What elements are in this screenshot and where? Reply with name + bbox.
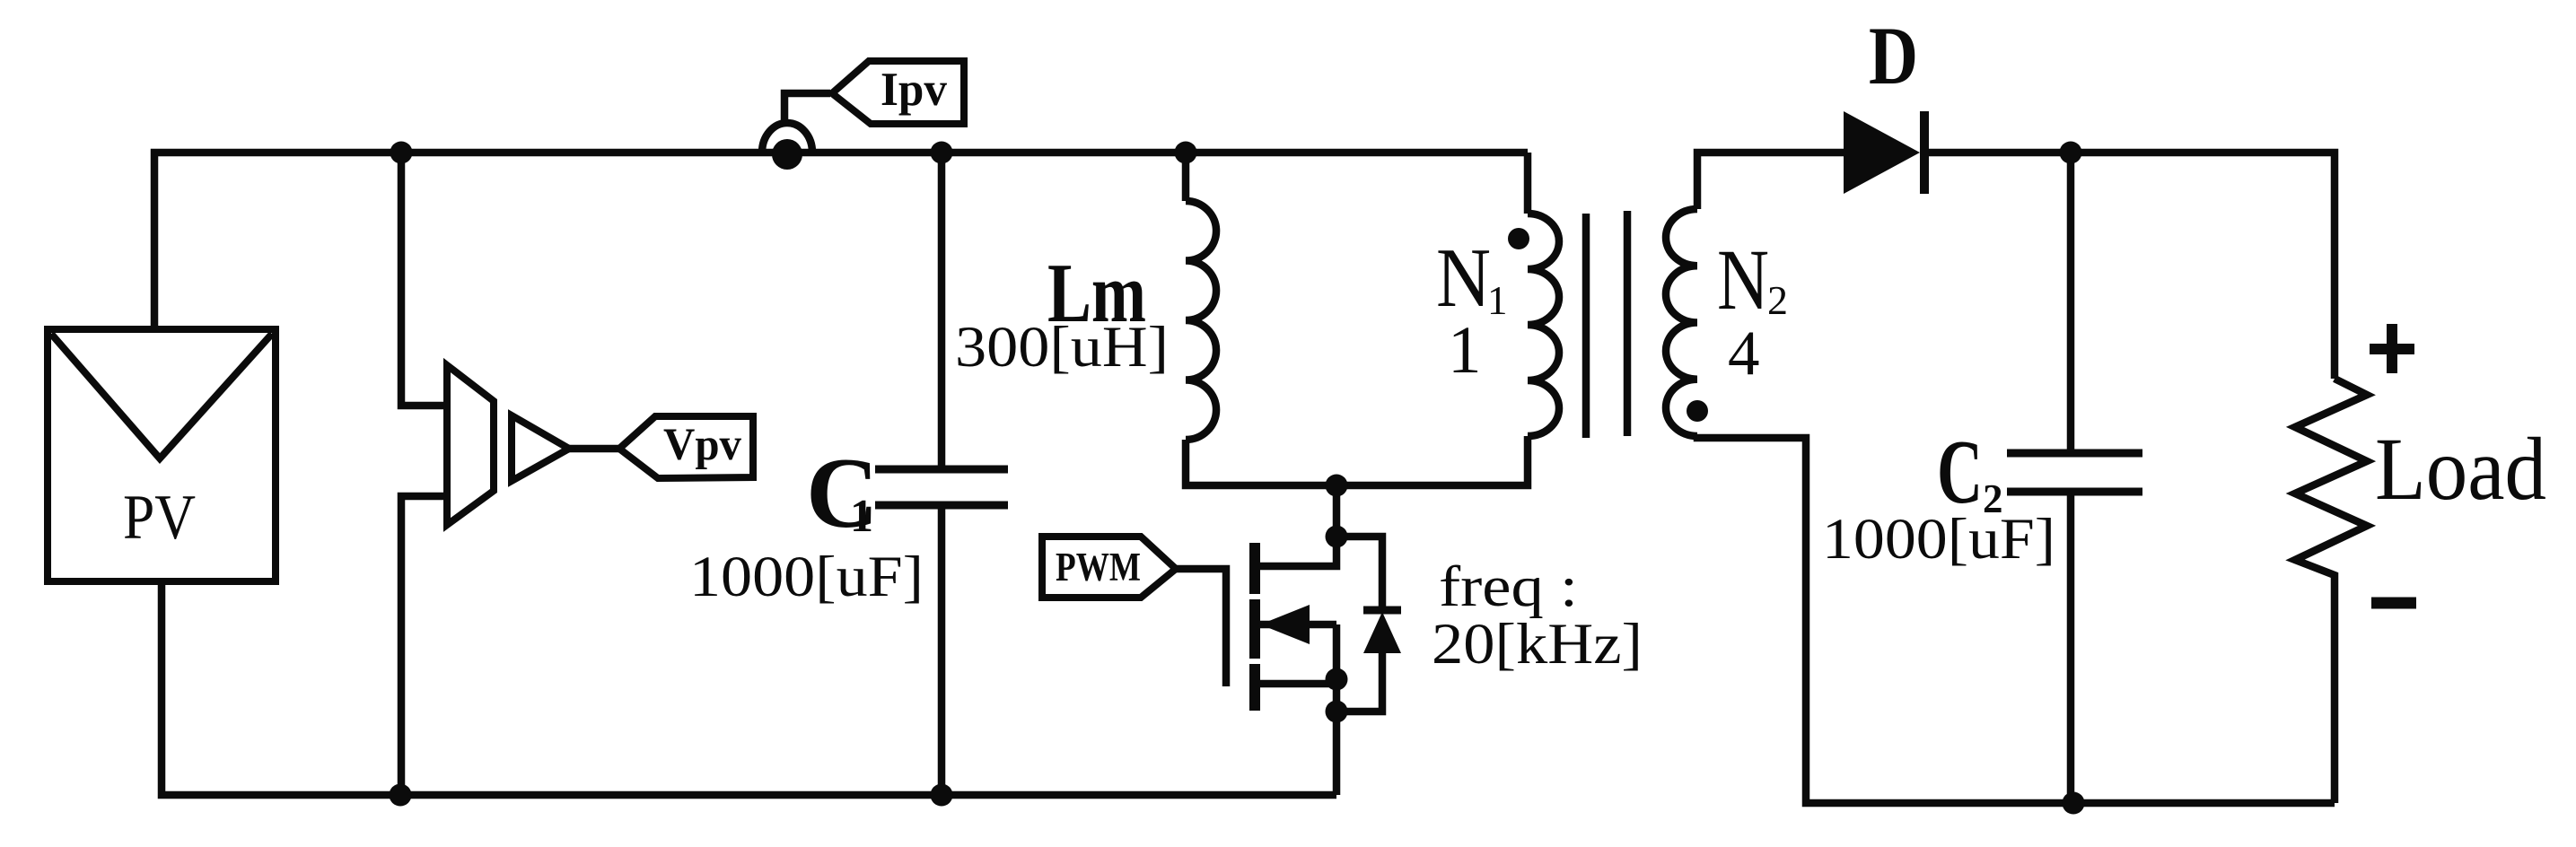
svg-text:1000[uF]: 1000[uF] [689,545,924,609]
transistor Q1 body arrow [1260,605,1310,644]
PV panel box [48,329,276,581]
PV panel triangle [51,334,272,458]
svg-text:freq :: freq : [1439,554,1578,619]
tag Ipv flag [832,61,964,124]
diode D triangle [1844,111,1920,194]
svg-text:Ipv: Ipv [881,64,947,116]
capacitor C1 top lead [938,153,946,469]
body diode triangle [1363,612,1401,653]
body diode cathode bar [1363,607,1401,615]
diode D cathode bar [1920,111,1929,194]
wire: N2 top lead to diode anode [1697,153,1844,209]
node: drain body-diode junction [1326,526,1348,548]
wire: sensor branch bottom [401,496,447,795]
node: sensor bottom tap [390,784,412,807]
svg-text:PV: PV [123,483,196,553]
wire: source vertical to bottom rail [1333,624,1341,795]
current sensor arc [762,123,812,153]
wire: Ipv tag hook [784,93,830,123]
svg-text:4: 4 [1728,319,1760,389]
capacitor C2 top lead [2067,153,2075,453]
capacitor C2 bottom lead [2067,492,2075,803]
wire: Vpv sensor output [569,445,619,453]
N1 phase dot [1508,228,1529,249]
node: body-diode bottom junction [1326,701,1348,723]
svg-text:PWM: PWM [1056,545,1141,589]
svg-text:Load: Load [2375,419,2546,519]
node: Lm top tap [1175,142,1197,164]
svg-text:1: 1 [1448,313,1482,388]
node: source junction [1326,668,1348,691]
node: sensor top tap [390,142,413,164]
transformer core bar 1 [1582,214,1590,438]
svg-text:300[uH]: 300[uH] [955,315,1169,380]
capacitor C2 plates [2007,453,2142,492]
svg-text:1: 1 [1487,278,1508,323]
capacitor C1 bottom lead [938,505,946,795]
voltage sensor U1 trapezoid [447,365,494,525]
wire: N1 top lead [1524,153,1532,214]
body diode bottom wire [1336,651,1382,712]
wire: diode cathode to output top corner [1924,153,2335,379]
body diode top wire [1336,537,1382,612]
tag Vpv flag [619,416,753,478]
label minus [2371,598,2416,609]
node: C1 bottom tap [931,784,953,807]
wire: sensor branch top [401,153,447,406]
tag PWM flag [1042,537,1176,598]
svg-text:1: 1 [850,491,873,542]
transistor Q1 source lead [1260,680,1336,688]
resistor Load zigzag + bottom lead [2295,379,2367,803]
voltage sensor U1 buffer triangle [512,415,569,481]
transformer secondary N2 coil [1666,209,1697,436]
inductor Lm coil [1186,201,1216,440]
current sensor dot [772,139,802,170]
svg-text:20[kHz]: 20[kHz] [1432,612,1643,677]
svg-text:2: 2 [1767,277,1788,323]
svg-text:N: N [1436,231,1491,325]
wire: PWM gate wire + gate plate [1176,569,1226,686]
node: output top junction [2060,142,2082,164]
svg-text:Vpv: Vpv [663,420,741,470]
wire: PV top lead + top rail [154,153,1528,329]
inductor Lm top lead [1182,153,1190,201]
svg-text:N: N [1717,231,1769,327]
svg-text:1000[uF]: 1000[uF] [1822,507,2055,572]
transistor Q1 drain lead [1260,485,1336,566]
label plus [2370,324,2414,373]
transformer core bar 2 [1624,211,1632,436]
node: C2 bottom tap [2063,792,2085,815]
svg-text:D: D [1869,10,1918,101]
node: C1 top tap [931,142,953,164]
wire: Lm bottom + primary bottom + N1 bottom lead [1186,436,1528,485]
capacitor C1 plates [875,469,1008,505]
transistor Q1 body line [1260,621,1336,629]
transformer primary N1 coil [1528,214,1559,436]
N2 phase dot [1687,400,1708,422]
wire: N2 bottom lead + bottom-right rail [1697,436,2335,803]
node: primary bottom drain tap [1326,475,1348,497]
wire: PV bottom lead + bottom-left rail [162,581,1336,795]
transistor Q1 channel bars [1249,543,1260,711]
